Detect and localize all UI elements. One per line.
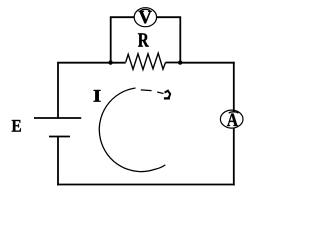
voltmeter V letter — [139, 11, 152, 24]
battery E long plate — [34, 117, 81, 119]
label E — [12, 120, 21, 132]
wire voltmeter branch left — [111, 17, 135, 63]
battery E short plate — [49, 136, 70, 138]
junction dot right — [178, 60, 182, 64]
wire top left segment — [58, 62, 126, 64]
current loop arrowhead foot — [164, 97, 170, 99]
current loop arrowhead — [165, 91, 171, 98]
voltmeter V circle — [134, 8, 156, 27]
ammeter A circle — [220, 110, 243, 128]
wire top right segment — [179, 62, 235, 64]
label R — [138, 33, 149, 46]
wire right lower segment — [233, 127, 235, 185]
current loop dash 1 — [141, 89, 152, 92]
label I — [94, 90, 101, 102]
ammeter needle arc — [229, 112, 238, 114]
resistor R — [126, 53, 166, 69]
wire left lower segment — [57, 137, 59, 186]
wire left upper segment — [57, 62, 59, 118]
voltmeter needle arc — [141, 9, 151, 10]
current loop dash 2 — [157, 92, 163, 94]
wire resistor right lead — [166, 62, 181, 64]
wire bottom segment — [57, 184, 235, 186]
current loop arc — [99, 88, 165, 172]
junction dot left — [108, 60, 112, 64]
ammeter A letter — [227, 113, 238, 126]
wire voltmeter branch right — [157, 17, 181, 63]
wire right upper segment — [233, 62, 235, 112]
ammeter wire stub — [233, 110, 235, 112]
